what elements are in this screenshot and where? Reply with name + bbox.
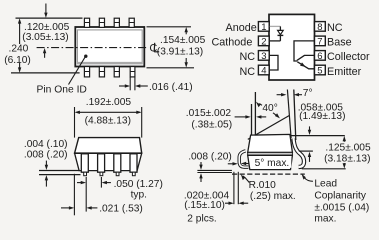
ext line body corner	[73, 174, 75, 216]
dim text .015	[186, 108, 232, 119]
right lead upright line D	[294, 90, 296, 141]
svg-text:.004 (.10): .004 (.10)	[24, 139, 68, 150]
svg-text:±.0015 (.04): ±.0015 (.04)	[314, 203, 369, 214]
wire LED anode drop	[279, 26, 281, 30]
svg-text:3: 3	[261, 51, 266, 62]
extension line L1 body top	[291, 135, 345, 137]
extension line bottom	[11, 72, 80, 74]
dim .021 right arrow	[86, 206, 97, 209]
wire pin1 to LED (gray)	[270, 25, 281, 27]
pin bottom 4	[130, 67, 135, 77]
standoff down arrow	[45, 161, 48, 170]
svg-text:(3.91±.13): (3.91±.13)	[157, 46, 203, 57]
foot left arrow	[228, 162, 238, 165]
pin top 2	[99, 18, 104, 27]
seating plane dashed	[232, 173, 305, 175]
dim text .008 side	[188, 152, 232, 163]
dim .240 down arrow	[18, 63, 21, 73]
dim text .050	[114, 179, 163, 190]
label NC pin4	[240, 66, 256, 78]
dim .015 right arrow	[256, 115, 266, 118]
label Coplanarity	[314, 191, 366, 202]
svg-text:6: 6	[317, 51, 322, 62]
svg-text:Base: Base	[327, 37, 352, 49]
standoff line upper	[39, 170, 80, 172]
dim .021 left arrow	[61, 206, 74, 209]
dim 7deg left arrow	[277, 93, 287, 96]
svg-text:.050 (1.27): .050 (1.27)	[114, 179, 163, 190]
coplanarity lines pair	[197, 170, 232, 172]
LED D1	[278, 30, 284, 35]
label NC pin8	[327, 22, 343, 34]
pin box 6	[315, 51, 326, 62]
dim text 3.18	[324, 154, 370, 165]
svg-text:R.010: R.010	[249, 180, 277, 191]
front lead 3	[114, 154, 121, 176]
dim .050 left arrow	[77, 181, 86, 184]
label Collector	[327, 51, 370, 63]
svg-text:.016 (.41): .016 (.41)	[149, 82, 193, 93]
svg-text:(.38±.05): (.38±.05)	[191, 119, 232, 130]
dim .050 right arrow	[102, 181, 111, 184]
svg-text:4: 4	[261, 66, 266, 77]
dim text .38	[191, 119, 232, 130]
dim text .021	[99, 204, 143, 215]
dim text 6.10	[4, 55, 31, 66]
svg-text:(.15±.10): (.15±.10)	[184, 200, 225, 211]
pin box 5	[315, 65, 326, 76]
pin box 8	[315, 22, 326, 33]
pin bottom 3	[114, 67, 119, 77]
pin top 3	[114, 18, 119, 27]
dim text .240	[9, 44, 29, 55]
svg-text:Pin One ID: Pin One ID	[37, 85, 87, 96]
dim text R.010	[249, 180, 277, 191]
package front face	[75, 153, 142, 170]
pin box 3	[258, 51, 269, 62]
svg-text:2: 2	[261, 36, 266, 47]
package body U1 top view	[75, 27, 144, 67]
dim .120 up arrow	[43, 48, 46, 58]
svg-text:8: 8	[317, 22, 322, 33]
dim text .020	[184, 190, 230, 201]
dim text 3.05	[22, 32, 68, 43]
dim .015 left arrow	[235, 115, 251, 118]
svg-text:7: 7	[317, 36, 322, 47]
svg-text:(.25) max.: (.25) max.	[250, 191, 296, 202]
lead upright outer line B	[254, 92, 256, 135]
svg-text:Anode: Anode	[226, 22, 257, 34]
svg-text:(3.18±.13): (3.18±.13)	[324, 154, 370, 165]
dim .192 line with arrows	[75, 111, 142, 114]
pin top 1	[84, 18, 89, 27]
wire NC bracket pins 3-4	[270, 55, 278, 70]
dim .016 left arrow	[119, 84, 130, 87]
standoff line lower	[39, 174, 81, 176]
pin bottom 1	[84, 67, 89, 77]
dim text .25 max	[250, 191, 296, 202]
svg-text:Emitter: Emitter	[327, 66, 362, 78]
svg-text:40°: 40°	[262, 103, 277, 114]
svg-text:.021 (.53): .021 (.53)	[99, 204, 143, 215]
dim text .15	[184, 200, 225, 211]
label Base	[327, 37, 352, 49]
phototransistor emitter wire with arrow	[297, 62, 314, 69]
pin bottom 2	[99, 67, 104, 77]
dim text .192	[86, 97, 132, 108]
label NC pin3	[240, 51, 256, 63]
pin one ID dot	[84, 55, 87, 58]
label Cathode	[212, 37, 253, 49]
front lead 2	[98, 154, 105, 176]
right lead gullwing (double stroke)	[294, 139, 305, 167]
extension line L3 seating	[302, 168, 346, 170]
dim text 7deg	[303, 88, 313, 99]
svg-text:2 plcs.: 2 plcs.	[187, 213, 216, 224]
svg-text:.125±.005: .125±.005	[325, 142, 371, 153]
svg-text:Collector: Collector	[327, 51, 370, 63]
dim .192 ext lines	[75, 107, 142, 138]
dim text .008 front	[24, 150, 68, 161]
svg-text:.192±.005: .192±.005	[86, 97, 132, 108]
svg-text:.240: .240	[9, 44, 29, 55]
40deg arrow lower	[273, 113, 280, 119]
dim .020 ext lines	[234, 172, 238, 204]
dim .058 down arrow	[308, 126, 311, 135]
phototransistor collector wire	[297, 55, 314, 60]
label Pin One ID	[37, 85, 87, 96]
label Anode	[226, 22, 257, 34]
centerline symbol CL	[149, 42, 159, 54]
foot right arrow	[241, 162, 249, 165]
svg-text:(6.10): (6.10)	[4, 55, 31, 66]
dim .240 up arrow	[18, 18, 21, 44]
dim .125 up arrow	[343, 136, 346, 142]
svg-text:5° max.: 5° max.	[255, 158, 290, 169]
40deg arrow upper	[256, 102, 262, 108]
dim .154 ext top	[147, 26, 192, 28]
lead upright inner line A	[251, 104, 253, 139]
svg-text:1: 1	[261, 22, 266, 33]
pin top 4	[129, 18, 134, 27]
package top face	[75, 138, 142, 154]
extension line L2 lead shoulder	[299, 150, 313, 152]
body side view	[248, 134, 293, 169]
dim .016 ext lines	[130, 77, 135, 90]
svg-text:.008 (.20): .008 (.20)	[24, 150, 68, 161]
dim text .125	[325, 142, 371, 153]
dim text .154	[160, 35, 206, 46]
dim text 40deg	[262, 103, 277, 114]
svg-text:NC: NC	[327, 22, 343, 34]
wire LED cathode to pin2	[270, 35, 281, 41]
ext line lead2	[100, 177, 102, 188]
pin box 7	[315, 36, 326, 47]
dim text .004	[24, 139, 68, 150]
dim .016 right arrow	[135, 84, 148, 87]
dim text .120	[24, 22, 70, 33]
dim 7deg right arrow	[294, 93, 302, 96]
label max	[314, 214, 336, 225]
extension line top (pins top)	[16, 17, 83, 19]
label Emitter	[327, 66, 362, 78]
svg-text:.008 (.20): .008 (.20)	[188, 152, 232, 163]
dim .020 right arrow	[238, 202, 248, 205]
svg-text:Coplanarity: Coplanarity	[314, 191, 366, 202]
pin box 4	[258, 65, 269, 76]
svg-text:max.: max.	[314, 214, 336, 225]
pin box 1	[258, 22, 269, 33]
svg-text:(1.49±.13): (1.49±.13)	[299, 111, 345, 122]
svg-text:5: 5	[317, 66, 322, 77]
leader Pin One ID	[69, 57, 86, 84]
svg-text:NC: NC	[240, 66, 256, 78]
svg-text:(3.05±.13): (3.05±.13)	[22, 32, 68, 43]
phototransistor Q1 base wire	[294, 41, 314, 61]
dim .154 down arrow	[185, 58, 188, 68]
dim .125 down arrow	[343, 163, 346, 169]
front lead 1	[81, 154, 88, 176]
leader R.010	[241, 174, 250, 182]
left lead foot (double stroke)	[239, 151, 248, 167]
40 degree construction line	[248, 116, 289, 140]
dim text 4.88	[85, 115, 131, 126]
svg-text:(4.88±.13): (4.88±.13)	[85, 115, 131, 126]
dim text 1.49	[299, 111, 345, 122]
svg-text:Cathode: Cathode	[212, 37, 253, 49]
svg-text:.154±.005: .154±.005	[160, 35, 206, 46]
dim .154 ext bottom	[147, 67, 195, 69]
dim text 3.91	[157, 46, 203, 57]
leader lead coplanarity	[302, 174, 313, 182]
right lead upright line C	[287, 90, 291, 139]
dim .120 down arrow	[44, 4, 47, 18]
dim text .058	[298, 102, 344, 113]
svg-text:.015±.002: .015±.002	[186, 108, 232, 119]
label Lead	[314, 179, 337, 190]
dim .008 up arrow	[199, 173, 202, 182]
ext line lead1	[85, 177, 87, 212]
svg-text:7°: 7°	[303, 88, 313, 99]
standoff up arrow	[45, 175, 48, 187]
dim .058 up arrow	[308, 152, 311, 162]
dim text 2 plcs	[187, 213, 216, 224]
dim .020 left arrow	[225, 202, 234, 205]
dim .008 down arrow	[199, 162, 202, 170]
centerline	[37, 47, 149, 49]
svg-text:NC: NC	[240, 51, 256, 63]
dim .154 up arrow	[185, 27, 188, 34]
pin box 2	[258, 36, 269, 47]
label 0015	[314, 203, 369, 214]
optocoupler body U2	[269, 14, 315, 80]
svg-text:typ.: typ.	[131, 189, 147, 200]
dim text .016	[149, 82, 193, 93]
svg-text:Lead: Lead	[314, 179, 337, 190]
front lead 4	[130, 154, 137, 176]
dim text typ	[131, 189, 147, 200]
label 5 deg max	[253, 158, 291, 169]
